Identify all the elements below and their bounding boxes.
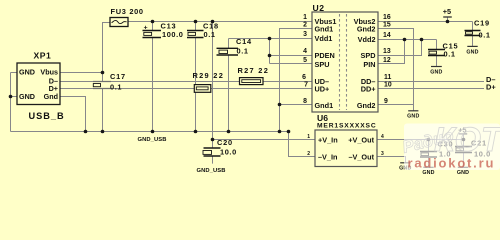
svg-text:MER1SXXXXSC: MER1SXXXXSC	[317, 123, 377, 130]
svg-text:SPU: SPU	[315, 60, 330, 69]
svg-text:100.0: 100.0	[162, 30, 184, 39]
svg-text:5: 5	[303, 57, 307, 64]
svg-text:–V_Out: –V_Out	[348, 152, 374, 161]
svg-text:Vdd2: Vdd2	[358, 35, 376, 44]
capacitor C13	[143, 22, 184, 40]
wire C19 bottom lead	[472, 36, 474, 47]
wire U2 pin11 DD- to D- label	[378, 81, 484, 83]
svg-text:Gnd: Gnd	[44, 92, 58, 101]
svg-text:+5: +5	[443, 7, 451, 16]
svg-text:Gnd2: Gnd2	[357, 24, 376, 33]
node rail XP1 Gnd	[84, 130, 88, 134]
wire U2 pin3 Vdd1 with C14 tap	[229, 38, 313, 40]
svg-text:Vbus: Vbus	[40, 67, 58, 76]
svg-text:GND: GND	[457, 170, 469, 176]
ground symbol for C21	[457, 167, 469, 176]
node XP1 left GND	[9, 95, 13, 99]
svg-text:КОТ: КОТ	[434, 121, 500, 159]
node C30 tap	[427, 138, 431, 142]
ground symbol for C15	[430, 67, 442, 76]
capacitor C18	[187, 22, 219, 40]
svg-text:0.1: 0.1	[479, 30, 491, 39]
svg-text:C14: C14	[236, 37, 252, 46]
svg-text:0.1: 0.1	[237, 46, 249, 55]
svg-text:11: 11	[384, 74, 391, 81]
svg-text:Gnd1: Gnd1	[315, 24, 334, 33]
wire C30 top lead	[428, 140, 430, 152]
wire XP1 Gnd to GND_USB rail	[60, 97, 86, 132]
capacitor C15	[428, 42, 458, 59]
svg-text:GND: GND	[466, 49, 478, 55]
svg-text:13: 13	[383, 48, 391, 55]
wire -V_In link from rail to U6	[289, 132, 316, 157]
wire C15 bottom lead	[436, 56, 438, 67]
node rail C14	[227, 130, 231, 134]
svg-text:SPD: SPD	[360, 51, 375, 60]
svg-text:GND: GND	[422, 170, 434, 176]
svg-text:FU3 200: FU3 200	[111, 7, 144, 16]
svg-text:0.1: 0.1	[110, 82, 122, 91]
wire Vbus drop to C20 and +V_In	[212, 22, 214, 149]
svg-text:radiokot.ru: radiokot.ru	[408, 156, 496, 171]
node +5/C21 tap	[462, 138, 466, 142]
node rail C18	[194, 130, 198, 134]
svg-text:10.0: 10.0	[220, 148, 237, 157]
svg-text:+V_Out: +V_Out	[348, 135, 374, 144]
svg-text:GND: GND	[19, 92, 35, 101]
wire U2 pin9 Gnd2	[378, 104, 414, 106]
svg-text:PIN: PIN	[363, 60, 375, 69]
node Vbus/fuse/C17	[101, 71, 105, 75]
wire C20 bottom lead	[212, 156, 214, 164]
svg-text:12: 12	[383, 57, 391, 64]
wire U2 pin4 PDEN	[270, 55, 313, 57]
connector XP1	[17, 51, 65, 122]
svg-text:15: 15	[383, 21, 391, 28]
svg-text:U2: U2	[313, 3, 325, 13]
DC-DC U6 MER1SXXXXSC	[307, 113, 384, 166]
svg-text:2: 2	[303, 21, 307, 28]
wire +V_In line to U6	[213, 139, 316, 141]
wire U2 pin15 Gnd2 drop to GND	[378, 29, 414, 111]
wire +5 stem top right	[447, 17, 449, 22]
node Vdd2/SPD tap	[420, 38, 424, 42]
svg-text:Gnd2: Gnd2	[357, 101, 376, 110]
wire D+ line from XP1 through R29 to U2 pin7	[60, 88, 312, 90]
wire C17 bottom lead	[102, 89, 104, 132]
svg-text:+V_In: +V_In	[318, 135, 338, 144]
svg-text:D+: D+	[486, 82, 496, 91]
wire XP1 left GND vertical	[10, 73, 12, 132]
wire top rail Vbus_fused from fuse to U2 pin1	[128, 21, 312, 23]
node rail C17	[101, 130, 105, 134]
svg-text:GND_USB: GND_USB	[197, 168, 226, 174]
svg-text:Gnd1: Gnd1	[315, 101, 334, 110]
svg-text:C20: C20	[217, 138, 233, 147]
node pin8 Gnd1 tap	[278, 103, 282, 107]
svg-text:C19: C19	[474, 19, 490, 28]
wire XP1 left GND stub top	[11, 72, 18, 74]
wire GND_USB rail	[11, 131, 289, 133]
svg-text:GND: GND	[430, 69, 442, 75]
pin numbers U2 right	[383, 14, 392, 105]
svg-text:C13: C13	[161, 22, 177, 31]
svg-text:R29 22: R29 22	[193, 71, 225, 80]
capacitor C17	[93, 72, 126, 92]
svg-text:4: 4	[303, 48, 307, 55]
svg-text:0.1: 0.1	[204, 30, 216, 39]
svg-text:16: 16	[383, 14, 391, 21]
svg-text:+: +	[144, 25, 148, 32]
pin numbers U2 left	[302, 14, 308, 105]
node rail corner to -V_In	[287, 130, 291, 134]
svg-text:8: 8	[303, 98, 307, 105]
svg-text:UD+: UD+	[315, 84, 330, 93]
svg-text:14: 14	[383, 32, 391, 39]
svg-text:XP1: XP1	[34, 51, 52, 61]
wire U2 pin2 Gnd1 drop to rail	[280, 29, 313, 132]
wire U6 -V_Out to GND	[377, 157, 406, 163]
wire U2 pin5 SPU	[270, 63, 313, 65]
svg-text:PDEN: PDEN	[315, 51, 335, 60]
ground symbol for -V_Out	[399, 163, 411, 172]
wire C13 bottom lead	[152, 38, 154, 132]
wire C14 bottom lead	[228, 55, 230, 132]
svg-text:GND: GND	[407, 113, 419, 119]
node rail C13	[151, 130, 155, 134]
wire U2 pin8 Gnd1	[280, 104, 313, 106]
node +V_In tap	[211, 138, 215, 142]
node +5 top tap	[446, 20, 450, 24]
svg-text:10: 10	[384, 81, 392, 88]
svg-text:7: 7	[304, 81, 308, 88]
ground symbol for U2 pins 15,9	[407, 111, 419, 120]
capacitor C19	[465, 19, 491, 40]
wire XP1 left GND stub bottom	[11, 96, 18, 98]
wire U6 +V_Out line	[377, 139, 464, 141]
node Vdd2/PIN tap	[403, 38, 407, 42]
ground symbol for C30	[422, 167, 434, 176]
svg-text:3: 3	[303, 31, 307, 38]
wire C30 bottom lead	[428, 157, 430, 167]
capacitor C20	[203, 138, 237, 157]
IC U2 ADuM4160	[312, 3, 378, 112]
svg-text:–V_In: –V_In	[318, 152, 337, 161]
node top rail C13	[151, 20, 155, 24]
resistor R29	[193, 71, 225, 92]
node top rail Vbus drop	[211, 20, 215, 24]
wire U2 pin12 PIN drop to Vdd2	[378, 40, 405, 64]
wire C13 top lead	[152, 22, 154, 31]
wire C21 top lead	[463, 140, 465, 147]
wire Vbus from XP1 to fuse drop	[60, 72, 103, 74]
wire C18 top lead	[195, 22, 197, 31]
svg-text:1: 1	[303, 14, 307, 21]
wire C19 top lead	[472, 22, 474, 31]
ground symbol for C19	[466, 46, 478, 55]
capacitor C21	[455, 138, 491, 158]
wire D- line from XP1 through R27 to U2 pin6	[60, 81, 312, 83]
svg-text:DD+: DD+	[361, 84, 376, 93]
svg-text:3: 3	[381, 151, 384, 157]
wire U2 pin10 DD+ to D+ label	[378, 88, 484, 90]
wire U2 pin14 Vdd2 to C15	[378, 39, 437, 41]
svg-text:0.1: 0.1	[444, 49, 456, 58]
wire U2 pin16 Vbus2 rail to C19	[378, 21, 473, 23]
svg-text:6: 6	[302, 74, 306, 81]
wire C18 bottom lead	[195, 38, 197, 132]
svg-text:GND: GND	[19, 67, 35, 76]
wire C21 bottom lead	[463, 153, 465, 168]
svg-text:GND_USB: GND_USB	[138, 137, 167, 143]
node top rail C18	[194, 20, 198, 24]
power +5 bottom right	[458, 126, 467, 135]
node pin3 Vdd1 tap	[268, 37, 272, 41]
svg-text:9: 9	[384, 98, 388, 105]
wire fuse left lead with vertical to Vbus and C17	[103, 23, 111, 82]
node pin4 PDEN tap	[268, 54, 272, 58]
svg-text:C17: C17	[110, 72, 126, 81]
wire C15 top lead	[436, 40, 438, 50]
svg-text:USB_B: USB_B	[29, 111, 65, 121]
capacitor C14	[217, 37, 253, 55]
fuse FU3	[110, 7, 144, 27]
capacitor C30	[420, 139, 453, 158]
wire U2 pin3 drop to pins 4,5	[269, 39, 271, 64]
watermark panel	[404, 124, 500, 171]
svg-text:R27 22: R27 22	[238, 66, 270, 75]
power +5 top right	[443, 7, 452, 17]
svg-text:4: 4	[381, 134, 384, 140]
wire +5 stem bottom right	[463, 134, 465, 140]
svg-text:2: 2	[307, 151, 310, 157]
svg-text:1: 1	[307, 134, 310, 140]
resistor R27	[238, 66, 270, 84]
node rail U2 Gnd1	[278, 130, 282, 134]
wire C14 top lead	[228, 39, 230, 49]
wire U2 pin13 SPD drop to Vdd2	[378, 40, 422, 56]
svg-text:Vdd1: Vdd1	[315, 34, 333, 43]
